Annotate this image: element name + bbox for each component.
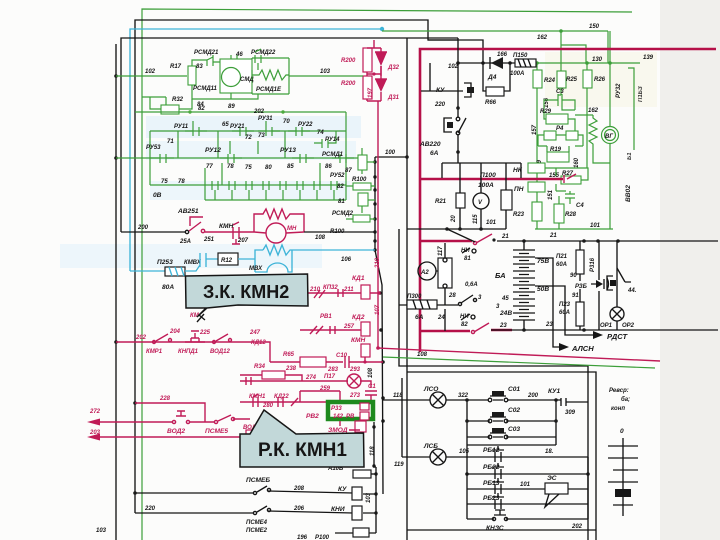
contact РУ14 — [314, 131, 336, 148]
wire crimson main top — [420, 49, 716, 352]
svg-text:Б1: Б1 — [627, 152, 633, 160]
contact УА slash 241 — [473, 241, 476, 244]
svg-text:257: 257 — [343, 324, 355, 330]
box СМД — [220, 59, 252, 93]
connector СО1 — [492, 391, 504, 396]
wire R21 leads — [460, 163, 506, 229]
svg-text:202: 202 — [253, 109, 265, 115]
svg-text:Р4: Р4 — [556, 126, 564, 132]
svg-text:102: 102 — [448, 64, 459, 70]
wire 229 row — [407, 228, 506, 230]
contact bracket — [607, 276, 613, 290]
wire pink 203 — [98, 436, 240, 438]
svg-text:РСМД11: РСМД11 — [193, 86, 218, 92]
wire green 92 bus — [135, 111, 346, 113]
device box А2 — [438, 258, 452, 288]
svg-text:0В: 0В — [153, 192, 162, 199]
svg-text:77: 77 — [206, 164, 213, 170]
button ВОД2 — [172, 420, 175, 423]
svg-text:228: 228 — [159, 396, 171, 402]
resistor R17 — [188, 66, 196, 85]
svg-text:П253: П253 — [157, 259, 173, 266]
relay КУ box — [352, 487, 362, 500]
svg-text:С1: С1 — [368, 384, 376, 390]
wire crimson branch 176 — [420, 178, 563, 181]
svg-text:78: 78 — [227, 164, 234, 170]
contact 28 — [458, 302, 461, 305]
svg-text:28: 28 — [448, 293, 456, 299]
wire tap 50В — [535, 286, 594, 335]
relay КД1 — [361, 285, 370, 299]
svg-text:108: 108 — [368, 367, 374, 378]
wire R17 bottom — [192, 85, 204, 99]
svg-text:РУ14: РУ14 — [325, 137, 340, 143]
wire crimson branch 241 — [420, 240, 472, 243]
wire green АЛСН long — [383, 357, 655, 368]
wire black frame bus 2 — [407, 372, 596, 540]
svg-text:КМН: КМН — [351, 337, 366, 344]
svg-text:322: 322 — [458, 393, 469, 399]
svg-text:103: 103 — [366, 492, 372, 503]
svg-text:24: 24 — [437, 315, 445, 321]
svg-text:150: 150 — [589, 24, 600, 30]
svg-text:П1БЗ: П1БЗ — [638, 86, 644, 102]
svg-text:238: 238 — [285, 366, 297, 372]
wire РУ row C — [150, 184, 346, 186]
svg-text:211: 211 — [343, 287, 354, 293]
capacitor С3 — [550, 94, 572, 106]
resistor R23 — [532, 202, 542, 221]
wire 100 bus row — [375, 156, 407, 158]
contact КМР1 — [153, 341, 156, 344]
node АВ dot — [456, 61, 460, 65]
wire R28 leads — [537, 96, 587, 229]
capacitor С4 — [565, 191, 575, 204]
svg-text:КУ1: КУ1 — [548, 388, 561, 395]
svg-text:72: 72 — [245, 135, 252, 141]
wire R100 h1 leads — [346, 185, 375, 187]
svg-text:КНПД1: КНПД1 — [178, 349, 199, 355]
contact РУ22 — [288, 127, 310, 136]
breaker АВ251 bracket — [190, 217, 203, 226]
wire РУ row B — [116, 157, 360, 159]
contact ПСМЕ4 — [253, 511, 256, 514]
svg-text:202: 202 — [135, 335, 147, 341]
wire green 103 — [296, 75, 363, 77]
svg-text:107: 107 — [375, 304, 381, 315]
svg-text:РВ2: РВ2 — [306, 413, 319, 420]
wire РВ column — [374, 422, 376, 467]
resistor R26 — [583, 70, 592, 88]
contact slash 331 — [471, 330, 474, 333]
svg-text:80А: 80А — [162, 284, 174, 291]
svg-text:ба;: ба; — [621, 396, 630, 403]
wire П17 row — [240, 381, 371, 388]
svg-text:0: 0 — [620, 428, 624, 435]
contact КУ bracket — [464, 83, 471, 97]
wire R65 row — [270, 361, 383, 363]
contact row left — [246, 377, 251, 385]
svg-text:75: 75 — [245, 165, 252, 171]
wire bottom row — [407, 529, 596, 531]
contact row D ticks — [212, 181, 337, 190]
wire inner verticals — [178, 131, 320, 200]
svg-text:С02: С02 — [508, 407, 520, 414]
generator ВГ — [602, 127, 619, 144]
svg-text:РУ32: РУ32 — [616, 83, 622, 98]
wire П21 leads — [580, 241, 599, 281]
breaker АВ220 contact — [456, 117, 460, 121]
svg-text:74: 74 — [317, 130, 324, 136]
svg-text:81: 81 — [464, 256, 471, 262]
svg-text:101: 101 — [520, 482, 531, 488]
wire РБ22 rung — [467, 473, 588, 475]
svg-text:220: 220 — [144, 506, 156, 512]
svg-text:С4: С4 — [576, 203, 584, 209]
wire РСМД2 leads — [346, 218, 375, 220]
svg-text:ЭС: ЭС — [547, 475, 557, 482]
contact РУ13 — [292, 154, 314, 163]
svg-text:108: 108 — [315, 235, 326, 241]
wire pink vertical 197 — [367, 92, 381, 348]
svg-text:П150: П150 — [513, 53, 528, 59]
svg-text:R26: R26 — [594, 77, 606, 83]
box НК — [528, 163, 545, 173]
resistor Р4b — [566, 131, 578, 140]
node — [522, 328, 526, 332]
wire black top bus — [135, 20, 483, 513]
lamp ЛСБ — [430, 449, 446, 465]
svg-text:166: 166 — [497, 52, 508, 58]
node — [372, 72, 375, 75]
wire 23 bottom bus — [491, 329, 718, 331]
capacitor С1 — [365, 391, 377, 400]
relay РСМД2 box — [353, 215, 370, 222]
relay box bottom — [353, 528, 369, 537]
svg-text:0,6А: 0,6А — [465, 282, 478, 288]
arrow РДСТ — [593, 331, 603, 339]
wire АВ220 vertical — [457, 38, 459, 163]
wire center bus upper — [375, 157, 383, 494]
wire R29 right — [568, 119, 575, 131]
battery БА — [513, 241, 535, 330]
svg-text:РУ53: РУ53 — [146, 145, 161, 151]
svg-text:АВ251: АВ251 — [177, 208, 199, 215]
contact НИ 82 — [461, 314, 470, 320]
contact КУ1 — [561, 398, 588, 406]
resistor zigzag ВГ — [589, 115, 610, 163]
diode Д32 — [375, 48, 387, 52]
svg-text:108: 108 — [417, 352, 428, 358]
svg-text:81: 81 — [338, 199, 345, 205]
svg-text:конп: конп — [611, 406, 625, 412]
svg-text:РВ: РВ — [346, 414, 355, 420]
contact КП32 — [314, 289, 343, 298]
wire black 40 — [428, 39, 458, 41]
svg-text:197: 197 — [368, 87, 374, 98]
svg-text:60А: 60А — [556, 262, 567, 268]
relay КД2 — [361, 322, 370, 336]
wire cyan 106 — [292, 249, 375, 251]
breaker АВ251 contact — [185, 230, 188, 233]
contact РСМД22 — [255, 49, 261, 70]
contact РУ31 — [258, 121, 280, 136]
svg-text:Ревср:: Ревср: — [609, 388, 629, 394]
svg-text:R100: R100 — [352, 177, 367, 183]
svg-text:КМР1: КМР1 — [146, 349, 163, 355]
svg-text:100А: 100А — [510, 71, 524, 77]
wire П1БЗ bracket — [628, 68, 634, 150]
svg-text:210: 210 — [375, 257, 381, 269]
svg-text:КД1: КД1 — [352, 275, 365, 282]
svg-text:ПСМЕ2: ПСМЕ2 — [246, 528, 268, 534]
svg-text:П21: П21 — [556, 254, 568, 260]
svg-text:ВОД2: ВОД2 — [167, 428, 185, 435]
lamp ОР — [610, 307, 624, 321]
node — [465, 398, 469, 402]
wire pink ВОД2 row — [98, 419, 250, 422]
wire РБ23 rung — [467, 503, 588, 505]
svg-text:П100: П100 — [480, 172, 496, 179]
resistor R12 — [218, 253, 238, 265]
svg-text:R200: R200 — [341, 58, 356, 64]
wire КД1 row — [307, 292, 380, 294]
svg-text:139: 139 — [643, 55, 654, 61]
wire Р4 — [538, 135, 583, 152]
svg-text:ВВ02: ВВ02 — [625, 185, 632, 202]
wire СО box verticals — [467, 400, 556, 445]
svg-text:РУ13: РУ13 — [280, 147, 296, 154]
svg-text:73: 73 — [258, 133, 265, 139]
resistor R200 upper — [363, 48, 372, 72]
svg-text:251: 251 — [203, 237, 215, 243]
resistor Р4a — [544, 131, 556, 140]
wire КМН1 row — [240, 391, 345, 402]
svg-text:102: 102 — [145, 69, 156, 75]
lamp ЛСО — [430, 392, 446, 408]
contact РБ23 — [492, 493, 504, 509]
svg-text:РУ31: РУ31 — [258, 116, 273, 122]
svg-text:207: 207 — [237, 238, 249, 244]
node green dots — [559, 29, 563, 33]
wire R34 row — [240, 375, 302, 381]
svg-text:20: 20 — [451, 215, 457, 223]
svg-text:293: 293 — [349, 367, 361, 373]
wire КМР row — [116, 342, 270, 362]
svg-text:225: 225 — [199, 330, 211, 336]
contact РУ21 — [232, 127, 254, 136]
wire КМ arrow — [197, 314, 205, 322]
wire РБ column verticals — [467, 445, 588, 519]
contact ПСМЕБ — [253, 491, 256, 494]
svg-text:ПН: ПН — [514, 186, 524, 193]
capacitor С10 — [345, 356, 349, 368]
connector СО3 — [492, 428, 504, 433]
svg-text:103: 103 — [320, 69, 331, 75]
callout Р.К. КМН1 — [240, 410, 364, 467]
svg-text:82: 82 — [461, 322, 468, 328]
node — [363, 360, 366, 363]
fuse П100 body — [501, 190, 512, 210]
svg-text:46: 46 — [235, 52, 243, 58]
motor СМД — [222, 68, 241, 87]
diode Д4 — [490, 62, 503, 64]
svg-text:272: 272 — [89, 409, 101, 415]
svg-text:R21: R21 — [435, 199, 447, 205]
svg-text:117: 117 — [438, 246, 444, 256]
svg-text:С3: С3 — [556, 89, 564, 95]
cyan П253 line — [130, 270, 165, 272]
svg-text:ПСМЕБ: ПСМЕБ — [246, 477, 270, 484]
svg-text:119: 119 — [394, 462, 404, 468]
contact РУ53 — [150, 154, 174, 163]
svg-text:162: 162 — [588, 108, 599, 114]
wire cyan top bus — [130, 29, 382, 271]
svg-text:З.К. КМН2: З.К. КМН2 — [203, 282, 289, 302]
wire 220 row — [135, 511, 376, 513]
fuse П21 — [576, 250, 584, 274]
svg-text:65: 65 — [222, 122, 229, 128]
resistor R65 — [300, 357, 326, 367]
svg-text:100: 100 — [385, 150, 396, 156]
svg-text:ОР1: ОР1 — [600, 323, 613, 329]
contact ПСМЕ5 — [214, 420, 217, 423]
svg-text:R65: R65 — [283, 352, 295, 358]
svg-text:200: 200 — [137, 225, 149, 231]
svg-text:70: 70 — [283, 119, 290, 125]
wire РВ1 row — [300, 329, 361, 331]
node — [377, 291, 380, 294]
svg-text:206: 206 — [293, 506, 305, 512]
node bus dots — [373, 160, 376, 251]
svg-text:21: 21 — [501, 234, 509, 240]
svg-text:КНИ: КНИ — [331, 506, 345, 513]
node — [465, 419, 469, 423]
resistor R19 — [547, 152, 569, 162]
wire lamp branch — [616, 241, 618, 307]
svg-text:25А: 25А — [179, 239, 191, 245]
wire РБ13 rung — [467, 488, 588, 490]
wire КМН bottom — [364, 357, 366, 362]
connector СО2 — [492, 412, 504, 417]
svg-text:РБ23: РБ23 — [483, 495, 500, 502]
node 92 dots — [188, 110, 191, 113]
svg-text:208: 208 — [293, 486, 305, 492]
svg-text:R12: R12 — [221, 258, 233, 264]
wire 21 bus — [497, 240, 718, 242]
wire 200 to АВ251 — [121, 231, 186, 233]
svg-text:156: 156 — [544, 97, 550, 108]
svg-text:274: 274 — [305, 375, 317, 381]
svg-text:МВХ: МВХ — [249, 266, 263, 272]
resistor R25 — [557, 71, 566, 88]
svg-text:86: 86 — [325, 164, 332, 170]
wire 24 — [444, 309, 446, 331]
svg-text:С10: С10 — [336, 353, 348, 359]
svg-text:ВГ: ВГ — [605, 134, 613, 140]
wire 108 — [304, 231, 375, 233]
svg-text:151: 151 — [548, 189, 554, 200]
svg-text:23: 23 — [545, 322, 553, 328]
lamp П17 — [347, 374, 361, 388]
motor МН — [266, 223, 286, 243]
node — [465, 472, 469, 476]
svg-text:45: 45 — [501, 296, 509, 302]
wire 84-89 — [204, 93, 258, 99]
resistor R66 — [486, 87, 504, 96]
svg-text:103: 103 — [96, 528, 107, 534]
resistor R34 — [262, 371, 285, 379]
wire lamp bottom — [616, 321, 618, 330]
svg-text:18.: 18. — [545, 449, 554, 455]
ammeter А2 — [418, 262, 436, 280]
svg-text:Р100: Р100 — [315, 535, 330, 540]
svg-text:П23: П23 — [559, 302, 571, 308]
svg-text:А2: А2 — [420, 270, 429, 276]
resistor R200 lower — [363, 76, 372, 99]
svg-text:71: 71 — [167, 139, 174, 145]
svg-text:60А: 60А — [559, 310, 570, 316]
svg-text:КМН: КМН — [219, 223, 234, 230]
svg-text:МН: МН — [287, 226, 297, 232]
fan МВХ bump — [255, 250, 292, 272]
svg-text:160: 160 — [574, 157, 580, 168]
svg-text:R23: R23 — [513, 212, 525, 218]
wire МВК link — [238, 250, 263, 272]
node dots — [522, 239, 526, 243]
svg-text:АВ220: АВ220 — [419, 141, 441, 148]
svg-text:R28: R28 — [565, 212, 577, 218]
wire R66 loop — [483, 63, 510, 91]
svg-text:82: 82 — [198, 106, 205, 112]
svg-text:РСМД1Е: РСМД1Е — [256, 87, 282, 93]
wire ЛСБ row — [402, 378, 588, 457]
fuse П150 — [515, 59, 536, 67]
fuse П253 — [165, 267, 185, 276]
svg-text:90: 90 — [570, 273, 577, 279]
svg-text:КНЗС: КНЗС — [486, 525, 504, 532]
diode Д31 — [375, 78, 387, 80]
contact РСМД1 — [332, 154, 354, 163]
svg-text:101: 101 — [486, 220, 497, 226]
resistor R27 — [561, 176, 581, 184]
svg-text:142: 142 — [333, 414, 344, 420]
svg-text:РУ22: РУ22 — [298, 122, 313, 128]
wire crimson branch 331 — [420, 330, 470, 333]
resistor R24 — [533, 70, 542, 88]
svg-text:200: 200 — [527, 393, 539, 399]
resistor R100 h1 — [353, 183, 371, 190]
svg-text:106: 106 — [341, 257, 352, 263]
svg-text:РУ52: РУ52 — [330, 173, 345, 179]
contact РУ11 — [185, 121, 207, 136]
svg-text:Р33: Р33 — [331, 406, 342, 412]
wire pink 228 — [135, 403, 205, 422]
svg-text:115: 115 — [473, 214, 479, 224]
svg-text:82: 82 — [337, 184, 344, 190]
svg-text:203: 203 — [89, 430, 101, 436]
wire green 130 — [536, 62, 640, 64]
svg-text:24В: 24В — [499, 310, 512, 317]
arrow left 203 — [87, 434, 100, 441]
fuse П300 — [407, 300, 437, 309]
drum controller — [622, 438, 624, 516]
node dots 229 — [445, 227, 449, 231]
svg-text:ПСМЕ4: ПСМЕ4 — [246, 520, 268, 526]
svg-text:50В: 50В — [537, 286, 549, 293]
wire РУ left vertical — [149, 131, 151, 185]
svg-text:РЗБ: РЗБ — [575, 284, 588, 290]
